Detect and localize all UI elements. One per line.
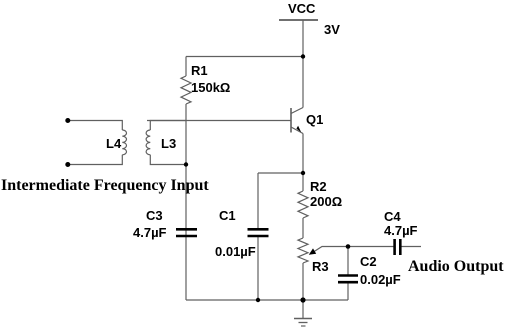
svg-text:R3: R3: [312, 259, 329, 274]
svg-text:R2: R2: [310, 179, 327, 194]
svg-text:0.02µF: 0.02µF: [360, 272, 401, 287]
svg-text:0.01µF: 0.01µF: [215, 244, 256, 259]
svg-text:L4: L4: [106, 136, 122, 151]
svg-text:4.7µF: 4.7µF: [133, 225, 167, 240]
svg-text:VCC: VCC: [288, 1, 316, 16]
svg-text:C1: C1: [219, 208, 236, 223]
svg-text:Intermediate Frequency Input: Intermediate Frequency Input: [1, 177, 209, 194]
svg-text:Q1: Q1: [306, 112, 323, 127]
svg-text:4.7µF: 4.7µF: [384, 223, 418, 238]
svg-text:Audio Output: Audio Output: [408, 258, 504, 275]
svg-text:200Ω: 200Ω: [310, 194, 342, 209]
svg-text:R1: R1: [191, 63, 208, 78]
svg-text:3V: 3V: [324, 22, 340, 37]
svg-text:L3: L3: [161, 136, 176, 151]
svg-text:C3: C3: [146, 208, 163, 223]
svg-text:150kΩ: 150kΩ: [191, 80, 230, 95]
svg-text:C4: C4: [384, 209, 401, 224]
svg-text:C2: C2: [360, 254, 377, 269]
